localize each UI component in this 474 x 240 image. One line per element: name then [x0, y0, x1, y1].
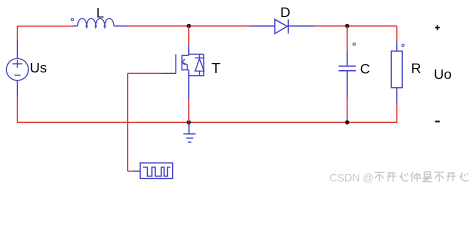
- wire: gate wire vertical (red) down to pulse generator: [127, 73, 129, 171]
- capacitor C port marker circle: [353, 43, 355, 45]
- wire: top rail right (red) from diode to top-right corner: [315, 25, 397, 27]
- watermark chinese glyph approximations: [375, 172, 469, 182]
- svg-text:CSDN @: CSDN @: [329, 173, 373, 185]
- svg-text:R: R: [411, 60, 421, 76]
- watermark CSDN text: [329, 173, 373, 185]
- wire: pulse generator lead (red): [128, 170, 134, 172]
- diode D right stub (blue): [287, 25, 314, 27]
- wire: capacitor bottom port stub (blue): [346, 71, 348, 98]
- wire: source bottom port stub (blue): [16, 80, 18, 97]
- svg-text:C: C: [360, 60, 370, 76]
- svg-text:D: D: [280, 4, 290, 20]
- wire: inductor left port stub (blue): [73, 25, 78, 27]
- ground bar 2: [186, 137, 193, 139]
- inductor L coil (4 humps): [78, 18, 114, 27]
- wire: source bottom lead (red): [16, 97, 18, 123]
- svg-text:L: L: [96, 5, 104, 21]
- wire: gate wire horizontal (red): [128, 72, 163, 74]
- mosfet T body diode cathode stub: [199, 54, 201, 58]
- label T: [211, 60, 220, 77]
- mosfet T source stub: [182, 69, 189, 71]
- mosfet T gate plate: [175, 54, 177, 73]
- label C: [360, 60, 370, 76]
- resistor R body rectangle: [391, 51, 402, 88]
- wire: capacitor top port stub (blue): [346, 52, 348, 67]
- capacitor C top plate: [339, 65, 356, 67]
- wire: top rail left (red), corner at (17.4,26): [17, 25, 73, 27]
- mosfet T body diode triangle: [195, 59, 204, 71]
- label D: [280, 4, 290, 20]
- wire: resistor bottom lead (red): [396, 103, 398, 122]
- node: junction dot bottom rail x capacitor: [345, 120, 349, 124]
- capacitor C bottom plate: [339, 70, 356, 72]
- pulse generator square wave: [143, 167, 170, 176]
- label L: [96, 5, 104, 21]
- ground bar 1: [183, 133, 195, 135]
- wire: capacitor bottom lead (red): [346, 98, 348, 122]
- wire: bottom rail (red): [17, 121, 397, 123]
- diode D triangle: [275, 19, 287, 33]
- label R: [411, 60, 421, 76]
- node: junction dot top rail x capacitor: [345, 24, 349, 28]
- label output plus: [435, 25, 440, 30]
- ground bar 3: [188, 141, 191, 143]
- wire: source top lead (red part): [16, 26, 18, 41]
- label Uo: [434, 66, 452, 82]
- voltage source Us minus sign: [14, 74, 20, 76]
- svg-text:Us: Us: [30, 60, 47, 76]
- wire: mosfet source lead blue part: [188, 70, 190, 100]
- wire: top rail middle (red) from inductor to diode: [127, 25, 250, 27]
- label Us: [30, 60, 47, 76]
- mosfet T channel bar: [181, 55, 183, 71]
- resistor R port marker circle: [402, 44, 404, 46]
- ground stem (blue): [188, 122, 190, 133]
- voltage source Us plus sign: [12, 60, 22, 68]
- inductor L port marker circle: [71, 18, 73, 20]
- mosfet T drain stub (channel to drain vertical): [182, 54, 189, 56]
- wire: mosfet drain port stub (blue): [188, 46, 190, 55]
- wire: source top port stub (blue): [16, 41, 18, 59]
- label output minus: [435, 121, 440, 123]
- wire: resistor top lead (red), corner at (396.8,26): [396, 26, 398, 41]
- pulse generator box: [140, 163, 172, 179]
- node: junction dot top rail x drain: [187, 24, 191, 28]
- node: junction dot bottom rail x mosfet source: [187, 120, 191, 124]
- mosfet T body diode anode stub: [199, 71, 201, 76]
- diode D left stub (blue): [250, 25, 275, 27]
- wire: inductor right port stub (blue): [114, 25, 127, 27]
- wire: resistor bottom port stub (blue): [396, 88, 398, 103]
- svg-text:T: T: [211, 60, 220, 77]
- wire: capacitor top lead (red): [346, 26, 348, 52]
- diode D cathode bar: [287, 19, 289, 33]
- wire: mosfet source lead red part down to bottom rail: [188, 100, 190, 122]
- mosfet T top rail to body diode: [189, 53, 204, 55]
- mosfet T right loop (vertical + bottom): [189, 54, 204, 75]
- mosfet T body arrow (barbs + diagonal tail): [182, 59, 187, 70]
- voltage source Us circle: [6, 59, 28, 81]
- mosfet T body diode cathode bar: [195, 57, 204, 59]
- wire: gate stub (blue) from mosfet gate: [163, 72, 176, 74]
- wire: mosfet drain lead (red): [188, 26, 190, 46]
- wire: pulse generator port stub (blue): [134, 170, 141, 172]
- wire: resistor top port stub (blue): [396, 41, 398, 51]
- svg-text:Uo: Uo: [434, 66, 452, 82]
